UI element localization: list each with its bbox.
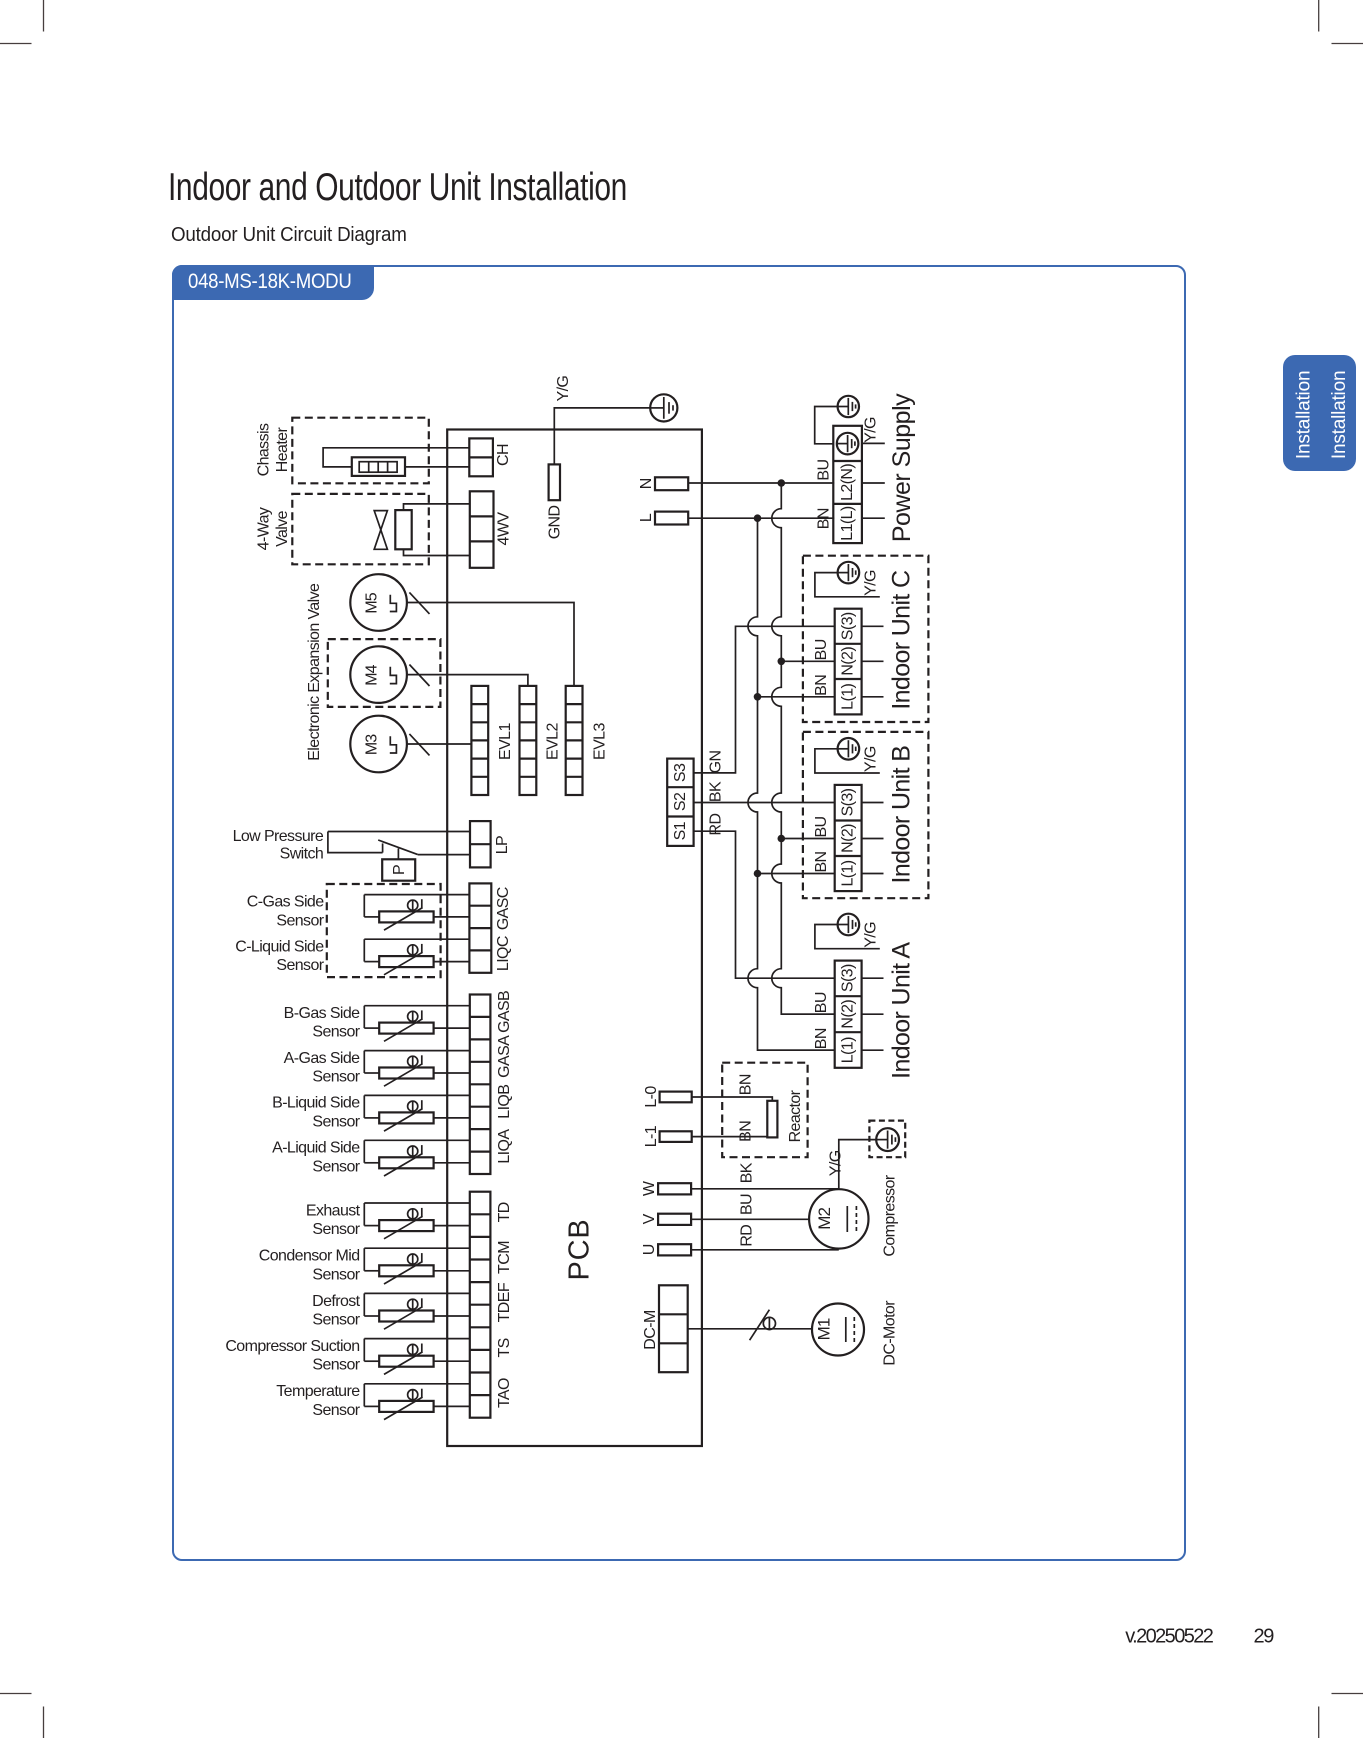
thermistor b-liquid side sensor [364,1095,470,1131]
svg-text:BU: BU [739,1194,756,1215]
svg-text:Sensor: Sensor [312,1221,360,1238]
svg-text:BU: BU [813,639,830,660]
svg-text:4WV: 4WV [496,512,513,546]
svg-text:LIQA: LIQA [496,1129,513,1164]
svg-text:Low Pressure: Low Pressure [233,828,324,845]
connector slash M3 [409,734,429,756]
terminal W [658,1183,691,1194]
svg-text:Defrost: Defrost [312,1293,361,1310]
wire L(1) stub unit C [862,696,884,698]
wire indoor unit A earth hook [815,925,880,949]
svg-text:Sensor: Sensor [312,1069,360,1086]
svg-text:M2: M2 [815,1208,834,1230]
svg-text:Indoor Unit B: Indoor Unit B [887,746,915,884]
wire S(3) stub unit B [862,802,884,804]
svg-text:Installation: Installation [1293,371,1314,459]
connector EVL3 [566,686,583,795]
connector DC-M [659,1285,688,1372]
thermistor a-liquid side sensor [364,1140,470,1176]
wire CH pin2 [405,466,469,468]
svg-text:RD: RD [739,1225,756,1247]
svg-text:BN: BN [737,1074,754,1095]
svg-text:Sensor: Sensor [312,1357,360,1374]
svg-text:Y/G: Y/G [863,922,880,948]
svg-text:DC-Motor: DC-Motor [881,1300,898,1366]
page title [168,166,627,210]
svg-text:EVL3: EVL3 [592,723,609,760]
svg-text:CH: CH [495,444,512,466]
terminal block indoor unit C [835,609,862,715]
svg-text:L(1): L(1) [840,860,857,886]
diagram frame [172,265,1186,1561]
svg-text:PCB: PCB [563,1218,595,1280]
crop mark bottom-right [1319,1694,1363,1738]
svg-text:Installation: Installation [1329,371,1350,459]
wire L to power supply [688,517,834,519]
svg-text:M3: M3 [364,734,381,755]
svg-text:Sensor: Sensor [276,957,324,974]
4-way valve dashed enclosure [292,494,429,564]
svg-text:Compressor Suction: Compressor Suction [225,1338,359,1355]
svg-text:DC-M: DC-M [642,1310,659,1350]
terminal L [655,512,688,525]
crop mark top-left [0,0,44,44]
terminal block indoor unit A [835,961,862,1068]
svg-text:P: P [391,865,408,875]
svg-text:BN: BN [737,1121,754,1142]
svg-text:A-Liquid Side: A-Liquid Side [272,1140,360,1157]
wire power supply external earth hook [815,407,838,444]
svg-text:Y/G: Y/G [863,746,880,772]
svg-text:U: U [641,1244,658,1255]
svg-text:N: N [638,478,655,489]
svg-text:N(2): N(2) [840,1000,857,1029]
svg-text:BK: BK [739,1162,756,1183]
svg-text:Sensor: Sensor [312,1312,360,1329]
wire 4WV pin1 [404,504,470,510]
PCB outline [447,430,702,1447]
svg-text:BK: BK [708,781,725,802]
crop mark bottom-left [0,1694,44,1738]
wire CH pin1 [323,448,469,467]
wire S1 to indoor unit A (RD) [694,831,835,978]
junction L bus / unit C [754,693,762,701]
svg-text:RD: RD [708,814,725,836]
svg-text:Sensor: Sensor [312,1024,360,1041]
thermistor defrost sensor [364,1293,470,1329]
terminal L-1 [660,1131,692,1142]
wire indoor unit B earth hook [815,749,880,773]
svg-text:L(1): L(1) [840,684,857,710]
earth ground power supply Y/G [838,396,859,417]
4-way valve body [374,511,387,550]
terminal N [655,477,688,490]
4-way valve solenoid coil [395,510,411,549]
svg-text:TCM: TCM [496,1241,513,1274]
reactor L1 [767,1101,777,1138]
svg-text:Sensor: Sensor [312,1402,360,1419]
thermistor compressor suction sensor [364,1339,470,1375]
C sensors dashed enclosure [327,884,441,977]
wire power supply L2 stub [862,482,885,484]
wire V to compressor (BU) [691,1218,809,1220]
svg-text:Power Supply: Power Supply [888,393,916,542]
motor M1 DC fan motor [812,1304,864,1356]
wire 4WV pin3 [404,549,470,555]
wire indoor unit C earth hook [815,573,880,597]
svg-text:TAO: TAO [496,1378,513,1408]
earth ground compressor Y/G [876,1128,899,1151]
motor M2 compressor [809,1189,868,1248]
svg-text:Sensor: Sensor [312,1158,360,1175]
wire LP pin1 [328,831,470,833]
wire S(3) stub unit A [862,977,884,979]
pressure switch contact [378,840,470,855]
svg-text:29: 29 [1254,1626,1275,1648]
wire N(2) unit C [781,660,834,662]
wire N to power supply [688,482,834,484]
pressure actuator P [382,849,415,881]
svg-text:Temperature: Temperature [276,1383,360,1400]
svg-text:Sensor: Sensor [276,912,324,929]
earth symbol in power supply block [837,433,859,455]
thermistor C-liquid side sensor [364,939,469,975]
svg-text:Sensor: Sensor [312,1266,360,1283]
svg-text:LP: LP [494,836,511,854]
wire L(1) stub unit A [862,1049,884,1051]
earth ground main Y/G [650,394,677,421]
indoor unit C dashed enclosure [803,556,929,722]
svg-text:Valve: Valve [274,510,291,547]
junction L bus / unit B [754,870,762,878]
wire DC-M to motor M1 [688,1328,812,1330]
wire power supply L1 stub [862,517,885,519]
svg-text:Indoor Unit C: Indoor Unit C [887,570,915,710]
wire U to compressor (RD) [691,1249,839,1251]
earth ground indoor unit B [838,738,860,760]
svg-text:Y/G: Y/G [862,417,879,443]
wire N(2) stub unit C [862,660,884,662]
connector 4WV [470,491,494,568]
svg-text:S(3): S(3) [840,788,857,816]
thermal protector theta symbol [763,1317,775,1331]
svg-text:EVL2: EVL2 [545,723,562,760]
svg-text:S3: S3 [672,763,689,782]
svg-text:S(3): S(3) [840,612,857,640]
wire compressor earth Y/G [839,1140,876,1189]
junction N bus [778,479,786,487]
svg-text:W: W [641,1180,658,1196]
svg-text:Indoor Unit A: Indoor Unit A [887,942,915,1079]
terminal block indoor unit B [835,785,862,891]
svg-text:S1: S1 [672,821,689,840]
thermistor a-gas side sensor [364,1051,470,1087]
svg-text:B-Gas Side: B-Gas Side [284,1005,361,1022]
connector EVL2 [520,686,537,795]
wire N(2) unit B [781,838,834,840]
motor M5 (stepping motor) [350,574,407,631]
svg-text:Y/G: Y/G [828,1150,845,1176]
wire W to compressor (BK) [691,1188,839,1190]
connector GASC/LIQC [469,883,491,972]
svg-text:BU: BU [813,992,830,1013]
junction N bus / unit B [778,835,786,843]
wire motor M4 to EVL [407,675,528,686]
svg-text:Exhaust: Exhaust [306,1202,361,1219]
wire N(2) unit A [781,1013,834,1015]
svg-text:BN: BN [813,851,830,872]
svg-text:LIQB: LIQB [496,1085,513,1119]
svg-text:B-Liquid Side: B-Liquid Side [272,1095,360,1112]
connector GASB/GASA/LIQB/LIQA [470,995,491,1175]
svg-text:v.20250522: v.20250522 [1125,1626,1214,1648]
svg-text:4-Way: 4-Way [255,507,272,550]
svg-text:TS: TS [496,1338,513,1357]
svg-text:L-1: L-1 [643,1125,660,1147]
svg-text:S(3): S(3) [840,964,857,992]
svg-text:GND: GND [547,505,564,539]
motor M3 (stepping motor) [350,716,407,773]
page subtitle [171,223,407,247]
svg-text:Y/G: Y/G [863,570,880,596]
compressor earth dashed enclosure [869,1121,905,1158]
connector GND [549,464,560,500]
svg-text:L-0: L-0 [643,1086,660,1108]
earth ground indoor unit A [838,914,860,936]
svg-text:Chassis: Chassis [255,423,272,476]
chassis heater dashed enclosure [292,418,429,484]
svg-text:N(2): N(2) [840,824,857,853]
connector slash M4 [409,665,429,687]
crop mark top-right [1319,0,1363,44]
thermistor temperature sensor [364,1384,470,1420]
thermistor C-gas side sensor [364,895,469,931]
svg-text:M5: M5 [364,592,381,613]
svg-text:V: V [641,1213,658,1224]
wire S3 to indoor unit C (GN) [694,626,835,773]
connector LP [470,821,491,867]
svg-text:BU: BU [816,460,833,481]
terminal U [658,1244,691,1255]
svg-text:L(1): L(1) [840,1037,857,1063]
wire GND to earth [554,408,650,465]
wire L(1) stub unit B [862,873,884,875]
svg-text:GASA: GASA [496,1035,513,1078]
terminal L-0 [660,1092,692,1103]
svg-text:M4: M4 [364,664,381,685]
svg-text:L1(L): L1(L) [839,506,856,541]
resistor chassis heater element [352,457,405,476]
svg-text:BN: BN [813,1028,830,1049]
wire S2 to indoor unit B (BK) [694,802,835,804]
svg-text:C-Gas Side: C-Gas Side [247,894,324,911]
svg-text:M1: M1 [815,1318,834,1340]
terminal V [658,1214,691,1225]
model tab 048-MS-18K-MODU [172,265,374,301]
junction L bus [754,514,762,522]
connector TD/TCM/TDEF/TS/TAO [470,1192,491,1418]
wire N(2) stub unit B [862,838,884,840]
svg-text:S2: S2 [672,792,689,811]
Installation side tab [1283,355,1356,471]
wire L-1 to reactor (BN) [692,1136,768,1138]
svg-text:Compressor: Compressor [881,1174,898,1256]
EEV M4 dashed enclosure [328,639,441,707]
wire motor M5 to EVL [407,603,574,686]
wire L(1) unit C [758,696,835,698]
svg-text:A-Gas Side: A-Gas Side [284,1050,361,1067]
svg-text:GASB: GASB [496,991,513,1033]
connector slash M5 [409,592,429,614]
wire motor M3 to EVL [407,743,472,745]
power supply terminal block [833,426,862,543]
svg-text:BN: BN [813,675,830,696]
wire L-0 to reactor (BN) [692,1097,773,1101]
svg-text:L: L [638,513,655,522]
wire S(3) stub unit C [862,625,884,627]
wire power supply earth stub [862,442,885,444]
wire N(2) stub unit A [862,1013,884,1015]
connector slash DC motor wire [750,1310,770,1341]
svg-text:Electronic Expansion Valve: Electronic Expansion Valve [306,583,323,761]
svg-text:C-Liquid Side: C-Liquid Side [235,938,324,955]
svg-text:LIQC: LIQC [495,936,512,971]
svg-text:BU: BU [813,816,830,837]
wire L(1) unit B [758,873,835,875]
svg-text:TDEF: TDEF [496,1282,513,1322]
thermistor b-gas side sensor [364,1006,470,1042]
wire N(2) distribution bus [772,483,835,1014]
wire L(1) unit A [758,1049,835,1051]
svg-text:BN: BN [816,508,833,529]
svg-text:GN: GN [708,751,725,774]
svg-text:TD: TD [496,1202,513,1222]
indoor unit B dashed enclosure [803,732,929,898]
thermistor condensor mid sensor [364,1248,470,1284]
svg-text:Heater: Heater [274,427,291,473]
wire LP pin2 / switch feed [328,832,383,853]
thermistor exhaust sensor [364,1203,470,1239]
connector S1 S2 S3 [667,759,693,846]
svg-text:Condensor Mid: Condensor Mid [259,1248,360,1265]
svg-text:Sensor: Sensor [312,1113,360,1130]
motor M4 (stepping motor) [350,646,407,703]
svg-text:N(2): N(2) [840,647,857,676]
wire L(1) distribution bus [748,518,835,1050]
svg-text:EVL1: EVL1 [497,723,514,760]
junction N bus / unit C [778,658,786,666]
svg-text:GASC: GASC [495,887,512,930]
connector EVL1 [471,686,488,795]
earth ground indoor unit C [838,562,860,584]
svg-text:Y/G: Y/G [555,376,572,402]
connector CH [469,438,493,476]
svg-text:Switch: Switch [280,845,324,862]
svg-text:Reactor: Reactor [787,1089,804,1142]
reactor dashed enclosure [722,1063,807,1158]
svg-text:L2(N): L2(N) [839,464,856,501]
